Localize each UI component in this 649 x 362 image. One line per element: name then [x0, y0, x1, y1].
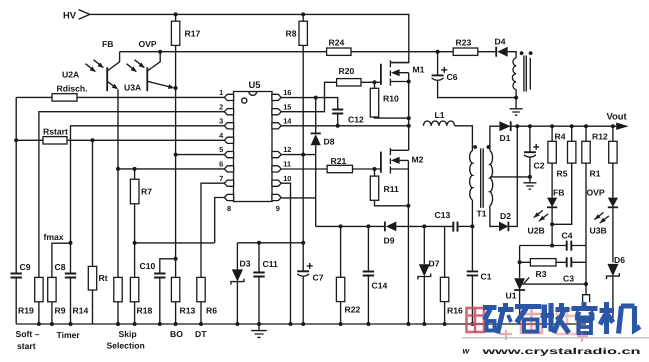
node: junction aux transformer bottom — [514, 96, 518, 100]
svg-text:DT: DT — [195, 329, 207, 339]
pin 5 — [219, 145, 233, 158]
resistor R18 — [130, 243, 138, 324]
svg-text:R24: R24 — [329, 37, 345, 47]
wire: pin2 to R19 — [39, 112, 224, 278]
resistor R9 with tie to fmax node — [48, 243, 71, 324]
watermark blue char ji — [600, 302, 641, 334]
capacitor C9 — [11, 274, 22, 325]
resistor R22 — [336, 226, 344, 324]
wire: R8 column down to C7 — [302, 52, 304, 272]
pin 15 — [272, 102, 292, 115]
capacitor C10 with tie to R13 column — [154, 259, 176, 324]
svg-text:9: 9 — [276, 204, 280, 213]
svg-text:3: 3 — [219, 116, 223, 125]
svg-text:C8: C8 — [55, 262, 66, 272]
svg-text:C4: C4 — [562, 230, 573, 240]
pin 6 — [219, 160, 233, 173]
svg-text:5: 5 — [219, 145, 223, 154]
svg-text:R9: R9 — [55, 305, 66, 315]
resistor Rstart — [16, 137, 224, 144]
svg-text:D1: D1 — [500, 133, 511, 143]
wire: bus y52 R24 to C6 node to R23 — [351, 51, 453, 53]
aux transformer winding — [512, 51, 532, 97]
wire: U2A emitter column down to pin6 — [117, 89, 119, 169]
node: junction R17 on HV rail — [174, 12, 178, 16]
wire: pin16 to D8 node to C12 — [281, 98, 337, 110]
svg-text:U2A: U2A — [62, 69, 79, 79]
wire: pin3 to C8 fmax column — [71, 126, 225, 274]
svg-text:C11: C11 — [263, 259, 279, 269]
svg-text:Skip: Skip — [119, 329, 137, 339]
svg-text:U3B: U3B — [590, 225, 607, 235]
svg-text:M1: M1 — [413, 64, 425, 74]
svg-text:U5: U5 — [249, 79, 261, 90]
watermark blue char yin — [572, 302, 598, 333]
wire: bus y52 R23 to D4 — [478, 51, 496, 53]
svg-text:R10: R10 — [383, 93, 399, 103]
pin 16 — [272, 88, 292, 101]
wire: C4 row — [520, 245, 586, 247]
watermark red stamp glyph 2 — [521, 307, 542, 333]
svg-text:14: 14 — [283, 116, 292, 125]
optocoupler transistor U3A — [127, 52, 175, 91]
node: junctions on return bus — [339, 224, 343, 228]
node: junction U3A collector OVP on bus — [158, 50, 162, 54]
resistor R23 — [453, 48, 478, 55]
resistor R8 — [299, 14, 307, 51]
diode D1 — [499, 121, 517, 131]
svg-text:U3A: U3A — [124, 83, 141, 93]
svg-text:R8: R8 — [286, 29, 297, 39]
svg-text:C9: C9 — [20, 262, 31, 272]
svg-text:R4: R4 — [555, 131, 566, 141]
pin 12 — [272, 145, 292, 158]
svg-text:C2: C2 — [534, 160, 545, 170]
svg-text:2: 2 — [219, 102, 223, 111]
MOSFET M2 — [381, 148, 409, 324]
svg-text:L1: L1 — [435, 110, 445, 120]
node: junction R8 on HV rail — [301, 12, 305, 16]
svg-text:Rdisch.: Rdisch. — [57, 84, 88, 94]
pin 7 — [219, 174, 233, 187]
inductor L1 — [423, 121, 472, 151]
watermark red stamp glyph 1 — [467, 308, 485, 332]
svg-text:D4: D4 — [495, 36, 506, 46]
pin 1 — [219, 88, 233, 101]
ground symbol on rail — [251, 324, 267, 337]
svg-text:D6: D6 — [614, 255, 625, 265]
diode D2 — [499, 126, 517, 231]
svg-text:C13: C13 — [435, 210, 451, 220]
svg-text:U2B: U2B — [528, 225, 545, 235]
optocoupler transistor U2A — [86, 52, 120, 91]
zener D3 — [231, 243, 244, 324]
capacitor C3 — [567, 257, 572, 267]
svg-text:R19: R19 — [18, 305, 34, 315]
svg-text:R11: R11 — [384, 184, 400, 194]
wire: pin15 up to R20 — [281, 82, 336, 111]
node: junction pin5 on R17 column — [174, 153, 178, 157]
resistor R12 — [609, 126, 617, 197]
svg-text:8: 8 — [227, 204, 231, 213]
svg-text:Rstart: Rstart — [43, 126, 68, 136]
svg-text:R21: R21 — [331, 156, 347, 166]
HV input connector — [79, 10, 90, 20]
svg-text:12: 12 — [283, 145, 291, 154]
svg-text:Rt: Rt — [99, 273, 108, 283]
svg-text:BO: BO — [170, 329, 183, 339]
svg-text:C7: C7 — [313, 272, 324, 282]
capacitor C2 electrolytic — [524, 126, 539, 177]
resistor Rt — [88, 140, 96, 324]
transformer T1 primary — [470, 145, 477, 271]
svg-text:R3: R3 — [536, 269, 547, 279]
wire: U1 ref to R1 — [522, 283, 586, 285]
MOSFET M1 — [381, 60, 409, 150]
resistor R3 — [530, 259, 556, 266]
svg-text:R12: R12 — [592, 131, 608, 141]
wire: primary return bus to D9 — [316, 225, 385, 227]
svg-text:M2: M2 — [412, 154, 424, 164]
svg-text:6: 6 — [219, 160, 223, 169]
wire: pin11 to R21 — [281, 168, 327, 170]
node: junction Vcc wire C7 — [301, 241, 305, 245]
ground under C2 — [523, 177, 536, 189]
zener D6 — [607, 264, 620, 322]
capacitor C12 — [332, 110, 343, 126]
U3B emission arrows — [594, 212, 609, 223]
svg-text:C3: C3 — [563, 273, 574, 283]
svg-text:R6: R6 — [206, 305, 217, 315]
capacitor C13 — [453, 222, 472, 232]
watermark red stamp remnants — [500, 330, 588, 342]
watermark blue char kuang — [483, 303, 514, 334]
resistor R19 — [35, 277, 43, 324]
svg-text:D3: D3 — [240, 258, 251, 268]
capacitor C6 electrolytic — [432, 52, 516, 98]
transformer T1 core — [481, 148, 484, 208]
svg-text:HV: HV — [63, 10, 77, 21]
node: junction D8 top — [314, 96, 318, 100]
wire: pin5 stub — [176, 154, 225, 156]
wire: R17 column down through pin5 to R13 — [175, 88, 177, 277]
svg-text:R14: R14 — [73, 305, 89, 315]
node: junction C6/R23 on bus — [436, 50, 440, 54]
svg-text:R7: R7 — [141, 186, 152, 196]
svg-text:R17: R17 — [185, 29, 201, 39]
svg-text:D2: D2 — [500, 211, 511, 221]
svg-text:FB: FB — [102, 39, 113, 49]
resistor R20 — [337, 79, 381, 86]
node: junction C7 at ground rail — [301, 322, 305, 326]
node: junction C10 tie on R13 column — [174, 257, 178, 261]
IC U5 body — [234, 92, 273, 202]
svg-text:R5: R5 — [557, 168, 568, 178]
wire: Vout rail — [517, 123, 628, 130]
node: junction Rstart on soft-start column — [14, 138, 18, 142]
wire: pin7 to R6 column — [201, 183, 224, 277]
wire: D4 to aux transformer top — [508, 52, 516, 58]
svg-text:FB: FB — [553, 187, 564, 197]
svg-text:Selection: Selection — [107, 340, 145, 350]
svg-text:11: 11 — [283, 160, 291, 169]
node: junction Rt on pin4 wire — [91, 138, 95, 142]
node: junction U3A emitter on R17 column — [174, 86, 178, 90]
resistor R11 — [370, 169, 408, 206]
wire: pin8 down to DT wire — [215, 198, 225, 243]
svg-text:15: 15 — [283, 102, 291, 111]
wire: pin9 to D8 column — [281, 197, 315, 199]
node: junction fmax — [69, 241, 73, 245]
node: junction C2/center tap — [528, 175, 532, 179]
diode D9 — [385, 222, 453, 232]
wire: pin12 to D8 column — [281, 154, 315, 156]
watermark red stamp glyph 3 — [557, 309, 577, 334]
svg-text:C10: C10 — [140, 261, 156, 271]
wire: pin10 down to ground rail — [281, 183, 290, 324]
svg-text:U1: U1 — [506, 290, 517, 300]
watermark blue char shi — [515, 307, 542, 332]
shunt regulator U1 — [514, 246, 529, 325]
capacitor C14 — [363, 226, 374, 324]
svg-text:OVP: OVP — [139, 39, 157, 49]
connector stub below R1 — [583, 295, 590, 303]
svg-text:C1: C1 — [481, 271, 492, 281]
wire: pin14 to half-bridge node — [281, 125, 408, 127]
transformer T1 secondary — [487, 126, 530, 226]
pin 2 — [219, 102, 233, 115]
svg-text:R1: R1 — [590, 168, 601, 178]
pin 14 — [272, 116, 292, 128]
svg-text:Timer: Timer — [57, 330, 81, 340]
svg-text:7: 7 — [219, 174, 223, 183]
capacitor C4 — [567, 241, 572, 251]
U2B emission arrows — [534, 210, 549, 221]
resistor R24 — [327, 48, 351, 55]
diode D8 — [311, 98, 321, 227]
wire: bus y52 from U2A collector to R24 — [120, 51, 327, 53]
capacitor C11 — [253, 243, 264, 324]
node: junction pin12 on R8 column — [301, 153, 305, 157]
svg-text:R22: R22 — [345, 304, 361, 314]
wire: DT horizontal R7 to pin8 — [135, 242, 215, 244]
svg-text:16: 16 — [283, 88, 291, 97]
capacitor C8 — [65, 274, 76, 325]
svg-text:OVP: OVP — [587, 187, 605, 197]
svg-text:C12: C12 — [348, 114, 364, 124]
capacitor C1 — [467, 271, 478, 324]
svg-text:T1: T1 — [477, 208, 487, 218]
ground under aux transformer — [510, 98, 523, 116]
svg-text:C14: C14 — [372, 280, 388, 290]
svg-text:Vout: Vout — [607, 110, 627, 121]
pin 11 — [272, 160, 291, 173]
zener D7 — [418, 226, 431, 324]
wire: HV top rail to M1 drain drop — [90, 14, 409, 62]
wire: ground rail — [16, 323, 586, 325]
LED FB (U2B) — [547, 198, 557, 246]
resistor R6 — [197, 277, 205, 324]
pin 3 — [219, 116, 233, 128]
svg-text:R16: R16 — [447, 305, 463, 315]
wire: D3/C11/C7 horizontal — [237, 242, 303, 244]
svg-text:R23: R23 — [456, 37, 472, 47]
svg-text:www.crystalradio.cn: www.crystalradio.cn — [481, 346, 641, 356]
resistor R16 — [440, 226, 448, 324]
resistor Rdisch — [16, 94, 224, 101]
pin 4 — [219, 131, 233, 144]
watermark blue char shou — [541, 303, 570, 333]
LED OVP (U3B) — [608, 198, 618, 263]
pin 10 — [272, 174, 292, 187]
resistor R1 — [582, 126, 590, 295]
svg-text:Soft –: Soft – — [16, 329, 40, 339]
node: junction R10 on gate wire — [373, 80, 377, 84]
resistor R21 — [327, 165, 381, 172]
watermark divider line — [462, 337, 649, 339]
svg-text:R18: R18 — [137, 305, 153, 315]
svg-text:10: 10 — [283, 174, 291, 183]
wire: C3 row with R3 — [520, 261, 586, 263]
svg-text:fmax: fmax — [44, 232, 64, 242]
svg-text:1: 1 — [219, 88, 223, 97]
node: junction R7 bottom on DT wire — [133, 241, 137, 245]
capacitor C7 electrolytic — [297, 263, 313, 324]
resistor R4 — [548, 126, 556, 197]
pin 9 — [272, 194, 281, 213]
resistor R17 — [171, 14, 179, 88]
wire: column x118 down to unlabeled resistor — [114, 169, 122, 324]
wire: pin6 to U2A emitter — [118, 168, 224, 170]
resistor R10 — [370, 82, 408, 118]
resistor R7 — [130, 169, 139, 243]
wire: soft-start column x16 — [15, 97, 17, 273]
svg-text:R20: R20 — [339, 66, 355, 76]
svg-text:D7: D7 — [429, 258, 440, 268]
svg-text:start: start — [17, 341, 36, 351]
pin 8 — [224, 194, 233, 213]
diode D4 — [496, 47, 508, 57]
svg-text:R13: R13 — [180, 305, 196, 315]
svg-text:D8: D8 — [324, 136, 335, 146]
node: junction D1/D2 output — [515, 124, 519, 128]
resistor R5 — [552, 126, 576, 224]
resistor R13 — [171, 277, 179, 324]
node: junction R13 at ground rail — [174, 322, 178, 326]
svg-text:D9: D9 — [384, 235, 395, 245]
svg-text:C6: C6 — [447, 72, 458, 82]
